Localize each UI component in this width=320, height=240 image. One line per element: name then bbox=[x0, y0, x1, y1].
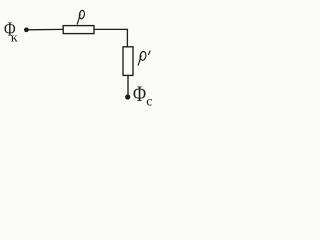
wire: node Ф_к to resistor ρ bbox=[26, 28, 63, 30]
label ρ bbox=[77, 10, 85, 25]
resistor R1 (ρ, horizontal) bbox=[63, 26, 94, 34]
label Ф_с bbox=[133, 82, 153, 108]
svg-text:к: к bbox=[11, 31, 19, 45]
node Ф_к (terminal dot) bbox=[24, 27, 29, 32]
svg-text:Ф: Ф bbox=[133, 82, 147, 107]
wire: resistor ρ to corner, down to resistor ρ' bbox=[95, 29, 128, 47]
node Ф_с (terminal dot) bbox=[125, 94, 130, 99]
label Ф_к bbox=[4, 17, 18, 44]
wire: resistor ρ' to node Ф_с bbox=[127, 76, 129, 96]
resistor R2 (ρ', vertical) bbox=[123, 47, 133, 76]
label ρ' bbox=[138, 51, 150, 66]
svg-text:с: с bbox=[146, 94, 152, 109]
